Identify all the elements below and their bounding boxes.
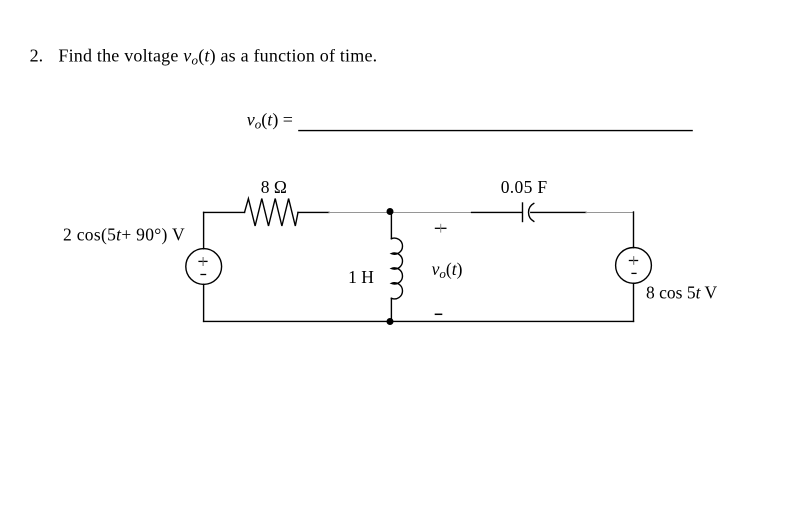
svg-text:8 Ω: 8 Ω xyxy=(261,177,287,197)
svg-text:2.: 2. xyxy=(30,46,43,66)
svg-text:2 cos(5t+ 90°) V: 2 cos(5t+ 90°) V xyxy=(63,224,185,244)
svg-text:0.05 F: 0.05 F xyxy=(501,177,548,197)
svg-text:Find the voltage vo(t) as a fu: Find the voltage vo(t) as a function of … xyxy=(58,46,377,68)
svg-text:vo(t): vo(t) xyxy=(432,259,463,281)
svg-text:8 cos 5t V: 8 cos 5t V xyxy=(646,283,718,303)
svg-text:1 H: 1 H xyxy=(348,267,374,287)
svg-text:vo(t) =: vo(t) = xyxy=(247,109,293,131)
